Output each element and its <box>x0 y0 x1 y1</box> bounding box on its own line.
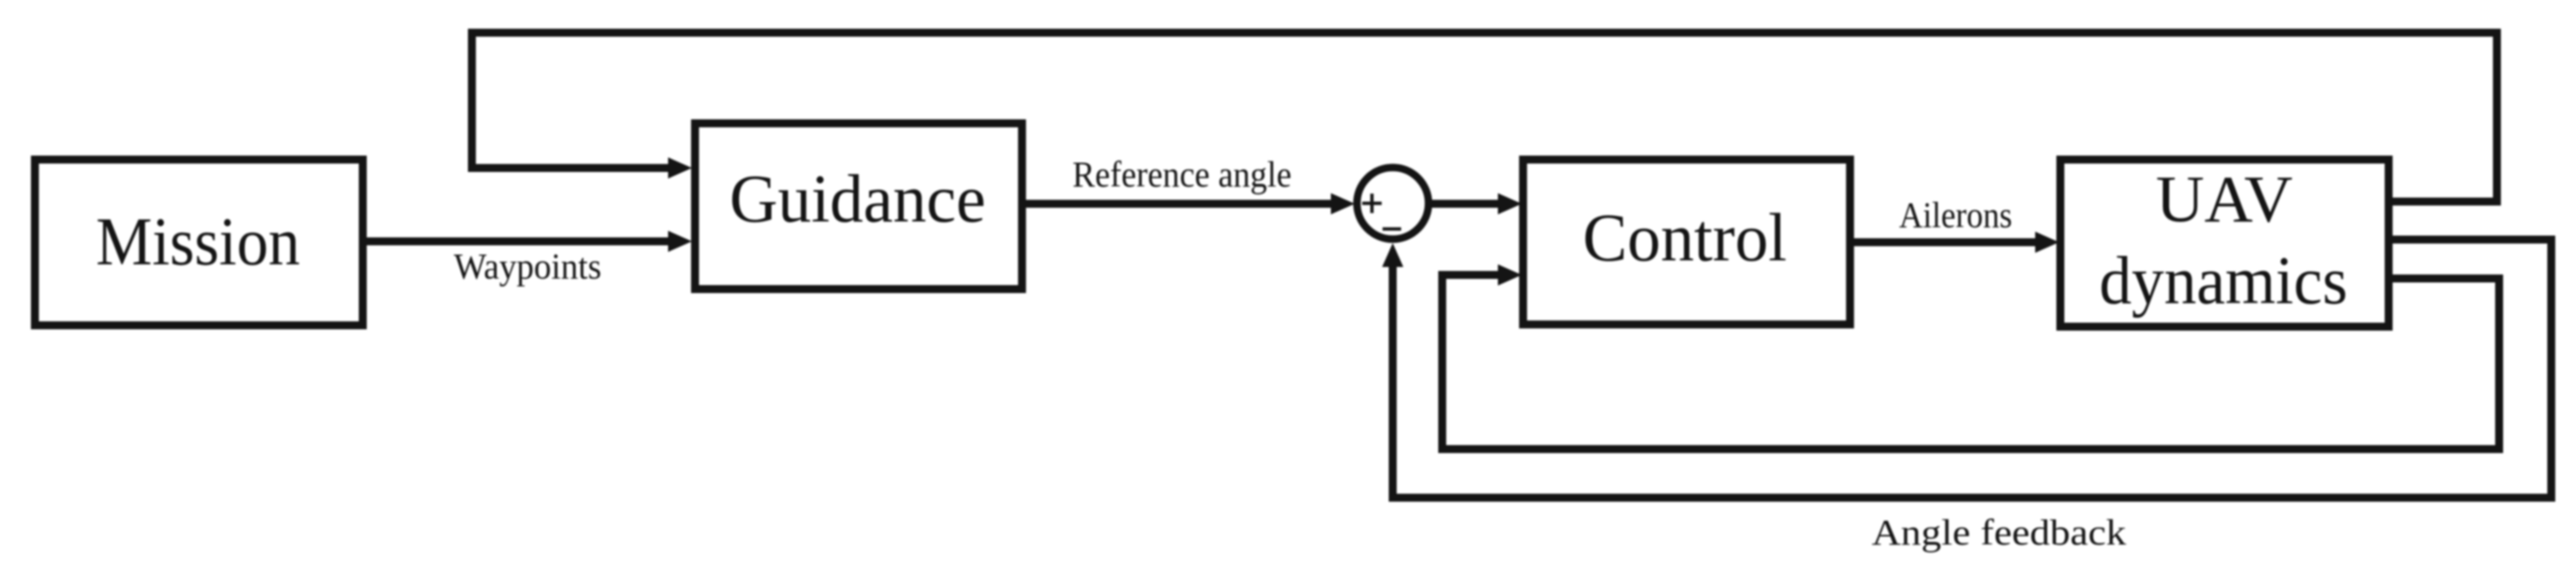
wire Waypoints: Mission to Guidance <box>364 238 670 246</box>
wire angle feedback: UAV dynamics to summing junction minus input <box>1393 240 2551 498</box>
svg-text:Waypoints: Waypoints <box>454 246 602 286</box>
arrowhead into Control input 1 <box>1498 194 1522 215</box>
summing junction <box>1357 168 1429 240</box>
svg-text:Angle feedback: Angle feedback <box>1872 512 2127 553</box>
svg-text:Guidance: Guidance <box>730 161 986 237</box>
svg-text:dynamics: dynamics <box>2100 242 2348 318</box>
arrowhead into summing junction (Reference angle) <box>1331 194 1355 215</box>
plus sign in summing junction <box>1363 194 1382 213</box>
minus sign in summing junction <box>1383 227 1402 231</box>
wire Reference angle: Guidance to summing junction <box>1023 200 1333 208</box>
svg-text:Ailerons: Ailerons <box>1899 194 2012 235</box>
wire summing junction to Control <box>1432 200 1501 208</box>
block UAV dynamics <box>2061 160 2390 327</box>
arrowhead into summing junction from below (minus input) <box>1382 243 1403 267</box>
svg-text:Mission: Mission <box>96 203 300 279</box>
wire inner feedback: UAV dynamics to Control input 2 <box>1442 275 2499 449</box>
block Mission <box>35 160 363 326</box>
arrowhead into Guidance input 1 <box>668 157 692 179</box>
block Guidance <box>695 124 1022 290</box>
wire top feedback: UAV dynamics to Guidance input 1 <box>472 33 2497 202</box>
svg-text:UAV: UAV <box>2156 164 2293 237</box>
svg-text:Control: Control <box>1583 200 1787 276</box>
wire Ailerons: Control to UAV dynamics <box>1851 239 2038 247</box>
arrowhead into UAV dynamics (Ailerons) <box>2035 232 2059 253</box>
svg-text:Reference angle: Reference angle <box>1073 154 1292 194</box>
arrowhead into Control input 2 <box>1498 264 1522 286</box>
block Control <box>1524 160 1850 325</box>
arrowhead into Guidance input 2 (Waypoints) <box>668 231 692 252</box>
